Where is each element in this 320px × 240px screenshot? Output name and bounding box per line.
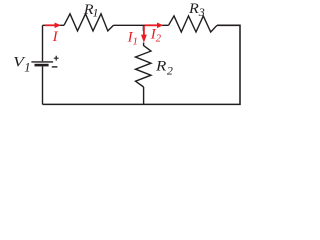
svg-text:I1: I1 <box>127 30 138 48</box>
svg-text:R3: R3 <box>188 1 205 19</box>
svg-text:R1: R1 <box>83 2 99 20</box>
svg-text:I: I <box>52 29 59 45</box>
svg-text:V1: V1 <box>13 55 30 75</box>
svg-text:R2: R2 <box>155 59 173 78</box>
svg-text:I2: I2 <box>150 27 162 45</box>
